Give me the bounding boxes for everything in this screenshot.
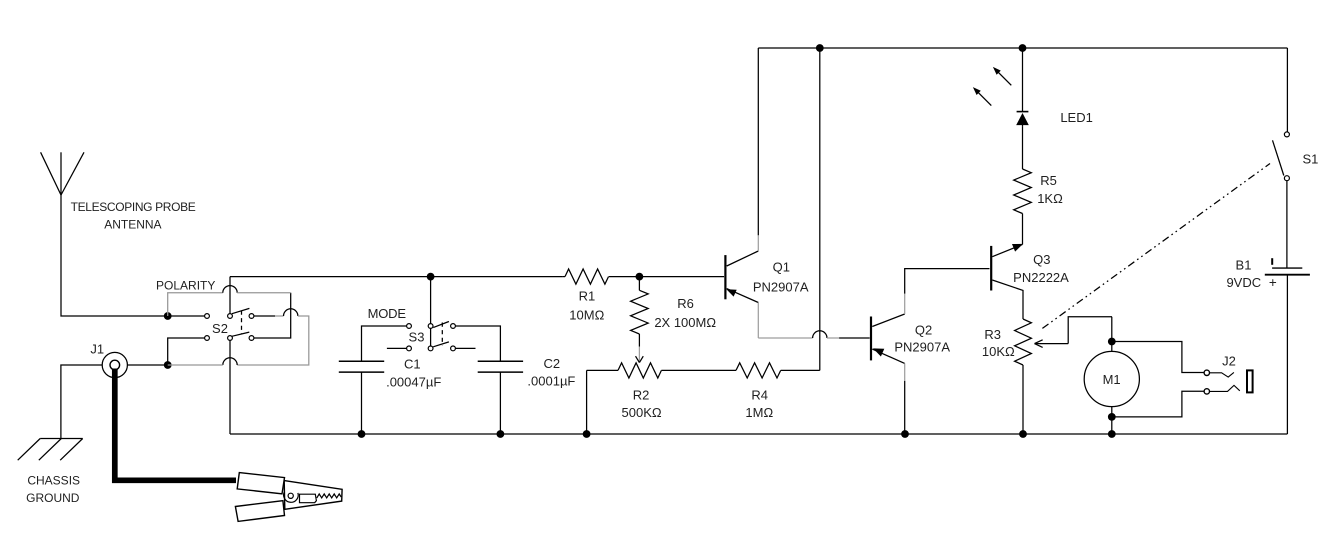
label S1 (1302, 152, 1318, 167)
wire S2 top-left stub (168, 315, 205, 317)
svg-text:1MΩ: 1MΩ (745, 405, 773, 420)
wire wiper to M1 (1111, 317, 1113, 352)
transistor Q3 collector up (992, 244, 1022, 256)
svg-text:2X 100MΩ: 2X 100MΩ (654, 315, 716, 330)
svg-text:J2: J2 (1222, 353, 1236, 368)
svg-text:R1: R1 (579, 289, 596, 304)
connector J1 (102, 352, 127, 377)
label R1 (569, 289, 604, 323)
wire M1 to J2 top (1112, 342, 1204, 373)
svg-text:M1: M1 (1103, 372, 1121, 387)
svg-text:CHASSIS: CHASSIS (27, 474, 80, 488)
svg-text:Q1: Q1 (773, 260, 790, 275)
capacitor C2 (478, 361, 523, 434)
connector J2 contacts (1204, 370, 1209, 394)
switch S3 gang link (441, 323, 443, 346)
label TELESCOPING PROBE ANTENNA (71, 200, 196, 231)
label M1 (1103, 372, 1121, 387)
label Q3 (1013, 252, 1069, 285)
motor M1 (1084, 351, 1139, 406)
switch S3 blades (433, 322, 449, 347)
battery B1 (1265, 258, 1310, 290)
svg-text:LED1: LED1 (1060, 110, 1093, 125)
transistor Q2 arrow (873, 348, 884, 356)
wire S2 top pole to mid rail (229, 277, 231, 314)
antenna (41, 152, 84, 195)
transistor Q1 arrow (726, 289, 736, 296)
resistor R4 (736, 363, 820, 378)
svg-text:B1: B1 (1236, 257, 1252, 272)
alligator clip (235, 473, 342, 522)
node M1 top junction (1108, 338, 1116, 346)
wire M1 to J2 bottom (1112, 391, 1204, 417)
svg-text:Q3: Q3 (1033, 252, 1050, 267)
resistor R5 (1014, 126, 1032, 244)
switch S2 blades (232, 308, 250, 336)
svg-text:MODE: MODE (368, 306, 407, 321)
transistor Q3 arrow (1012, 244, 1023, 252)
svg-text:1KΩ: 1KΩ (1037, 191, 1063, 206)
wire mid rail left (230, 276, 563, 278)
wire S3 top-left stub to C1 (362, 326, 407, 361)
transistor Q1 emitter (727, 48, 759, 266)
wire M1 bottom (1111, 407, 1113, 434)
transistor Q1 collector (727, 289, 759, 338)
switch S2 gang link (241, 311, 243, 335)
svg-text:Q2: Q2 (915, 323, 932, 338)
wire S2 bottom-left stub (168, 338, 205, 365)
svg-text:R4: R4 (751, 388, 768, 403)
svg-text:10MΩ: 10MΩ (569, 307, 604, 322)
node J1/S2 junction (164, 361, 172, 369)
svg-text:ANTENNA: ANTENNA (104, 217, 161, 231)
label CHASSIS GROUND (26, 474, 80, 506)
wire battery to bus (1286, 275, 1288, 434)
wire R6 wiper arrow (636, 356, 644, 362)
LED1 emission arrows (973, 67, 1011, 106)
node S3 top junction (427, 273, 435, 281)
svg-text:.0001µF: .0001µF (527, 374, 575, 389)
transistor Q2 collector up (872, 269, 989, 327)
node R3 bus junction (1019, 430, 1027, 438)
transistor Q2 emitter down (872, 349, 904, 434)
wire mid rail right (609, 276, 724, 278)
label R5 (1037, 173, 1063, 206)
wire J1 to S2 node (127, 364, 167, 366)
svg-text:10KΩ: 10KΩ (982, 344, 1015, 359)
switch S2 contacts (205, 314, 254, 341)
svg-text:R5: R5 (1040, 173, 1057, 188)
svg-text:R2: R2 (633, 388, 650, 403)
label R4 (745, 388, 773, 420)
svg-text:500KΩ: 500KΩ (622, 405, 662, 420)
transistor Q3 base bar (990, 246, 992, 291)
svg-text:9VDC: 9VDC (1226, 275, 1261, 290)
label Q2 (894, 323, 950, 355)
wire S3 poles vertical (430, 277, 432, 349)
svg-text:POLARITY: POLARITY (156, 279, 215, 293)
svg-text:R3: R3 (984, 327, 1001, 342)
node C2 bus junction (497, 430, 505, 438)
potentiometer R3 (1015, 319, 1032, 434)
chassis ground (18, 439, 83, 461)
svg-text:.00047µF: .00047µF (386, 375, 441, 390)
node top rail R4 junction (816, 44, 824, 52)
svg-text:J1: J1 (90, 342, 104, 357)
connector J2 blades (1210, 372, 1240, 391)
wire polarity crossover A (gray) (168, 286, 291, 316)
wire polarity crossover B (gray) (168, 309, 309, 365)
label R3 (982, 327, 1015, 359)
svg-text:C2: C2 (543, 356, 560, 371)
label S3 (409, 330, 425, 345)
node M1 bus junction (1108, 430, 1116, 438)
wire S3 bottom-left stub (387, 347, 407, 349)
node Q2 bus junction (901, 430, 909, 438)
svg-text:C1: C1 (404, 357, 421, 372)
wire R2 left to bus (586, 370, 588, 434)
potentiometer R2 (587, 363, 736, 378)
wire R3 wiper (1035, 317, 1113, 348)
label S2 (212, 321, 228, 336)
label Q1 (753, 260, 809, 295)
wire S2 top-right stub (254, 315, 275, 317)
connector J2 plug (1247, 370, 1253, 392)
svg-text:PN2907A: PN2907A (753, 279, 809, 294)
wire S2 bottom pole to bus (229, 340, 231, 434)
wire S3 bottom-right stub (455, 347, 475, 349)
svg-text:GROUND: GROUND (26, 491, 80, 505)
probe cable (thick) (115, 369, 236, 481)
svg-text:PN2222A: PN2222A (1013, 270, 1069, 285)
svg-text:PN2907A: PN2907A (894, 340, 950, 355)
transistor Q1 base bar (724, 255, 726, 299)
capacitor C1 (339, 361, 384, 434)
node R2 bus junction (583, 430, 591, 438)
transistor Q2 base bar (870, 317, 872, 361)
node M1 bottom junction (1108, 413, 1116, 421)
wire bottom bus (230, 433, 1287, 435)
node R1/R6 junction (636, 273, 644, 281)
wire Q1 collector to Q2 base (758, 331, 869, 338)
label J2 (1222, 353, 1236, 368)
wire R4 to top rail (819, 48, 821, 370)
svg-text:TELESCOPING PROBE: TELESCOPING PROBE (71, 200, 196, 214)
wire S1 top (1286, 48, 1288, 132)
label C2 (527, 356, 575, 389)
node C1 bus junction (358, 430, 366, 438)
wire antenna to polarity node (61, 195, 168, 316)
label R2 (622, 388, 662, 420)
svg-text:S3: S3 (409, 330, 425, 345)
wire S3 top-right stub to C2 (455, 326, 500, 361)
label C1 (386, 357, 441, 390)
switch S3 contacts (407, 324, 456, 351)
svg-text:R6: R6 (677, 296, 694, 311)
svg-text:S2: S2 (212, 321, 228, 336)
label B1 (1226, 257, 1261, 290)
resistor R1 (563, 269, 609, 284)
mechanical link dash-dot (1042, 164, 1270, 329)
label MODE (368, 306, 407, 321)
svg-text:+: + (1269, 275, 1277, 290)
label POLARITY (156, 279, 215, 293)
label R6 (654, 296, 716, 330)
svg-text:S1: S1 (1302, 152, 1318, 167)
label LED1 (1060, 110, 1093, 125)
resistor R6 (631, 277, 649, 363)
transistor Q3 emitter down (992, 280, 1023, 319)
node antenna/S2 junction (164, 312, 172, 320)
wire S1 to battery (1286, 181, 1288, 269)
node LED top rail junction (1019, 44, 1027, 52)
wire J1 left + chassis drop (61, 365, 102, 438)
wire top rail (758, 47, 1287, 49)
wire S2 bottom-right to crossover (254, 293, 291, 338)
LED1 diode (1017, 48, 1029, 126)
switch S1 (1273, 132, 1290, 181)
label J1 (90, 342, 104, 357)
